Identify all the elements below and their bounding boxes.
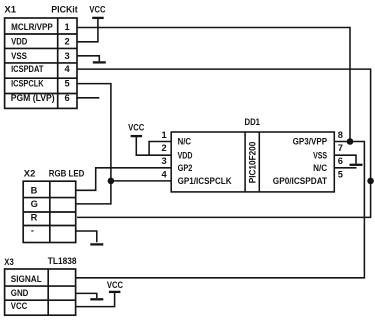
svg-text:GP1/ICSPCLK: GP1/ICSPCLK	[178, 176, 232, 186]
svg-text:VSS: VSS	[11, 51, 27, 61]
svg-text:GP3/VPP: GP3/VPP	[293, 137, 328, 147]
wire DD1 pin4 GP1/ICSPCLK	[111, 180, 171, 182]
svg-text:ICSPCLK: ICSPCLK	[11, 79, 44, 89]
wire X3 GND to ground	[76, 293, 97, 298]
svg-text:GP2: GP2	[178, 163, 193, 173]
svg-text:VCC: VCC	[11, 301, 28, 311]
svg-text:PGM (LVP): PGM (LVP)	[11, 93, 55, 103]
wire X1 pin4 ICSPDAT to GP0 net and X2 R	[77, 69, 371, 217]
svg-text:3: 3	[65, 51, 70, 61]
ground symbol at DD1 VSS	[350, 164, 363, 166]
ground symbol at X1 VSS	[93, 61, 106, 63]
svg-text:X2: X2	[24, 169, 36, 179]
svg-text:SIGNAL: SIGNAL	[11, 274, 42, 284]
svg-text:GND: GND	[11, 288, 29, 298]
svg-text:TL1838: TL1838	[48, 256, 77, 266]
wire X1 pin6 PGM stub	[77, 97, 99, 99]
svg-text:R: R	[31, 213, 38, 223]
svg-text:VCC: VCC	[89, 5, 105, 15]
wire X2 minus to ground	[76, 231, 97, 242]
power VCC symbol at DD1	[131, 135, 143, 137]
svg-text:VDD: VDD	[11, 37, 27, 47]
svg-text:4: 4	[162, 169, 168, 179]
connector X1 table	[5, 18, 77, 108]
svg-text:X3: X3	[4, 257, 14, 267]
svg-text:1: 1	[65, 22, 70, 32]
ground symbol at X3 GND	[90, 298, 103, 300]
wire X1 pin2 VDD to VCC	[77, 19, 98, 42]
connector X3 table	[5, 269, 76, 315]
svg-text:PICKit: PICKit	[51, 5, 77, 15]
svg-text:5: 5	[338, 169, 343, 179]
junction dot ICSPCLK net at DD1 pin4	[108, 178, 115, 185]
svg-text:B: B	[31, 186, 38, 196]
wire DD1 pin7 VSS to ground	[334, 155, 356, 164]
svg-text:VCC: VCC	[107, 280, 123, 290]
svg-text:2: 2	[65, 37, 70, 47]
connector X2 table	[23, 181, 75, 242]
svg-text:-: -	[31, 226, 34, 236]
svg-text:VDD: VDD	[178, 150, 193, 160]
svg-text:8: 8	[338, 130, 343, 140]
wire X1 pin1 MCLR/VPP to DD1 pin8 net	[77, 28, 350, 142]
wire DD1 pin2 VDD to VCC	[136, 137, 171, 156]
wire DD1 pin8 GP3/VPP to X3 SIGNAL	[76, 142, 365, 278]
svg-text:DD1: DD1	[245, 117, 261, 127]
wire DD1 pin1 N/C to VDD net	[149, 142, 171, 156]
svg-text:6: 6	[65, 93, 70, 103]
svg-text:RGB LED: RGB LED	[49, 169, 85, 179]
svg-text:1: 1	[162, 130, 167, 140]
svg-text:ICSPDAT: ICSPDAT	[11, 64, 44, 74]
wire X3 VCC to VCC	[76, 293, 115, 307]
svg-text:2: 2	[162, 143, 167, 153]
svg-text:G: G	[31, 199, 38, 209]
wire DD1 pin3 GP2 to X2 B	[76, 168, 172, 191]
svg-text:3: 3	[162, 156, 167, 166]
svg-text:MCLR/VPP: MCLR/VPP	[11, 22, 53, 32]
power VCC symbol above X1	[92, 17, 104, 19]
IC DD1 box	[171, 132, 334, 192]
power VCC symbol at X3	[109, 291, 121, 293]
ground symbol at X2 minus	[90, 243, 103, 245]
wire X1 pin3 VSS to ground	[77, 56, 99, 61]
svg-text:VCC: VCC	[128, 123, 144, 133]
wire DD1 pin6 N/C stub	[334, 167, 356, 169]
svg-text:7: 7	[338, 143, 343, 153]
svg-text:X1: X1	[4, 5, 16, 15]
svg-text:PIC10F200: PIC10F200	[247, 142, 257, 184]
junction dot MCLR net at DD1 pin8	[347, 138, 354, 145]
junction dot ICSPDAT net at DD1 pin5	[367, 178, 374, 185]
svg-text:4: 4	[65, 64, 71, 74]
svg-text:6: 6	[338, 156, 343, 166]
svg-text:N/C: N/C	[178, 137, 192, 147]
wire X1 pin5 ICSPCLK to GP1 net and X2 G	[76, 84, 111, 204]
svg-text:N/C: N/C	[313, 163, 327, 173]
svg-text:5: 5	[65, 79, 70, 89]
svg-text:VSS: VSS	[313, 150, 327, 160]
svg-text:GP0/ICSPDAT: GP0/ICSPDAT	[273, 176, 328, 186]
